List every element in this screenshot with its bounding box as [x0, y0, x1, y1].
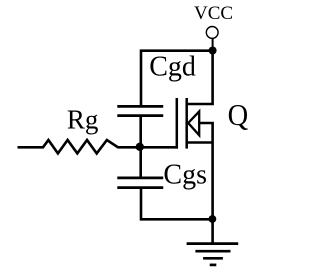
wire: top rail from left corner to VCC junction: [141, 51, 213, 107]
wire: left rail between Cgd and Cgs through gate node: [139, 116, 142, 178]
node: source/ground junction dot: [209, 215, 217, 223]
wire: stub from VCC circle to junction: [212, 38, 214, 48]
ground line 3: [203, 257, 223, 260]
node: gate junction dot: [136, 143, 144, 151]
svg-text:Cgd: Cgd: [149, 52, 196, 83]
capacitor C(gd) bottom plate: [117, 114, 163, 117]
capacitor C(gs) top plate: [117, 176, 163, 179]
svg-text:Q: Q: [228, 98, 249, 132]
wire: source connection: [187, 141, 213, 144]
ground line 1: [187, 242, 239, 245]
wire: body connection and rail down to ground: [199, 123, 212, 244]
capacitor C(gs) bottom plate: [117, 186, 163, 189]
transistor Q channel bar: [185, 98, 188, 149]
capacitor C(gd) top plate: [117, 105, 163, 108]
wire: left rail down from Cgs and bottom wire to source junction: [141, 188, 213, 220]
svg-text:Rg: Rg: [67, 104, 99, 134]
transistor Q body arrow: [188, 111, 199, 135]
svg-text:Cgs: Cgs: [163, 160, 207, 191]
VCC terminal circle: [206, 27, 218, 39]
ground line 4: [210, 264, 217, 267]
node: VCC junction dot: [209, 47, 217, 55]
resistor Rg zigzag with input lead: [18, 140, 140, 153]
wire: gate lead from node to MOSFET gate: [140, 146, 178, 149]
transistor Q gate bar: [176, 98, 179, 149]
svg-text:VCC: VCC: [194, 3, 233, 24]
ground line 2: [195, 250, 230, 253]
wire: drain connection up to VCC node: [187, 51, 213, 104]
